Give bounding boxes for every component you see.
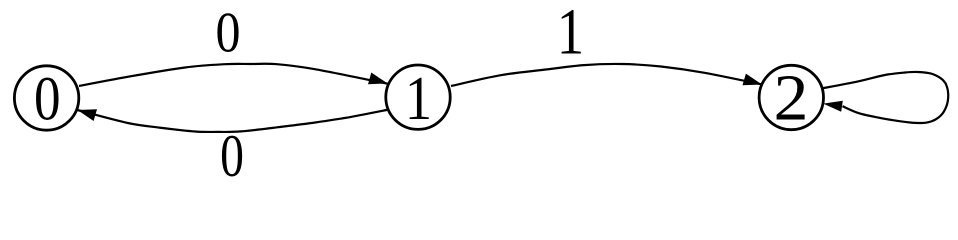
edge 1 to 2 wire (451, 64, 762, 86)
svg-text:2: 2 (774, 60, 809, 134)
edge 1 to 2 arrowhead (743, 74, 763, 86)
svg-text:1: 1 (405, 63, 432, 132)
state 2 circle (759, 65, 823, 129)
svg-text:0: 0 (220, 123, 244, 188)
svg-text:1: 1 (557, 0, 584, 69)
state 1 circle (386, 65, 450, 129)
edge 1 to 0 wire (78, 110, 390, 132)
state 0 circle (14, 66, 78, 130)
edge 0 to 1 arrowhead (368, 73, 388, 85)
self loop on state 2 wire (823, 72, 948, 123)
self loop on state 2 arrowhead (823, 101, 843, 112)
svg-text:0: 0 (215, 0, 240, 64)
svg-text:0: 0 (34, 64, 61, 134)
edge 1 to 0 arrowhead (78, 109, 98, 121)
edge 0 to 1 wire (79, 64, 388, 86)
